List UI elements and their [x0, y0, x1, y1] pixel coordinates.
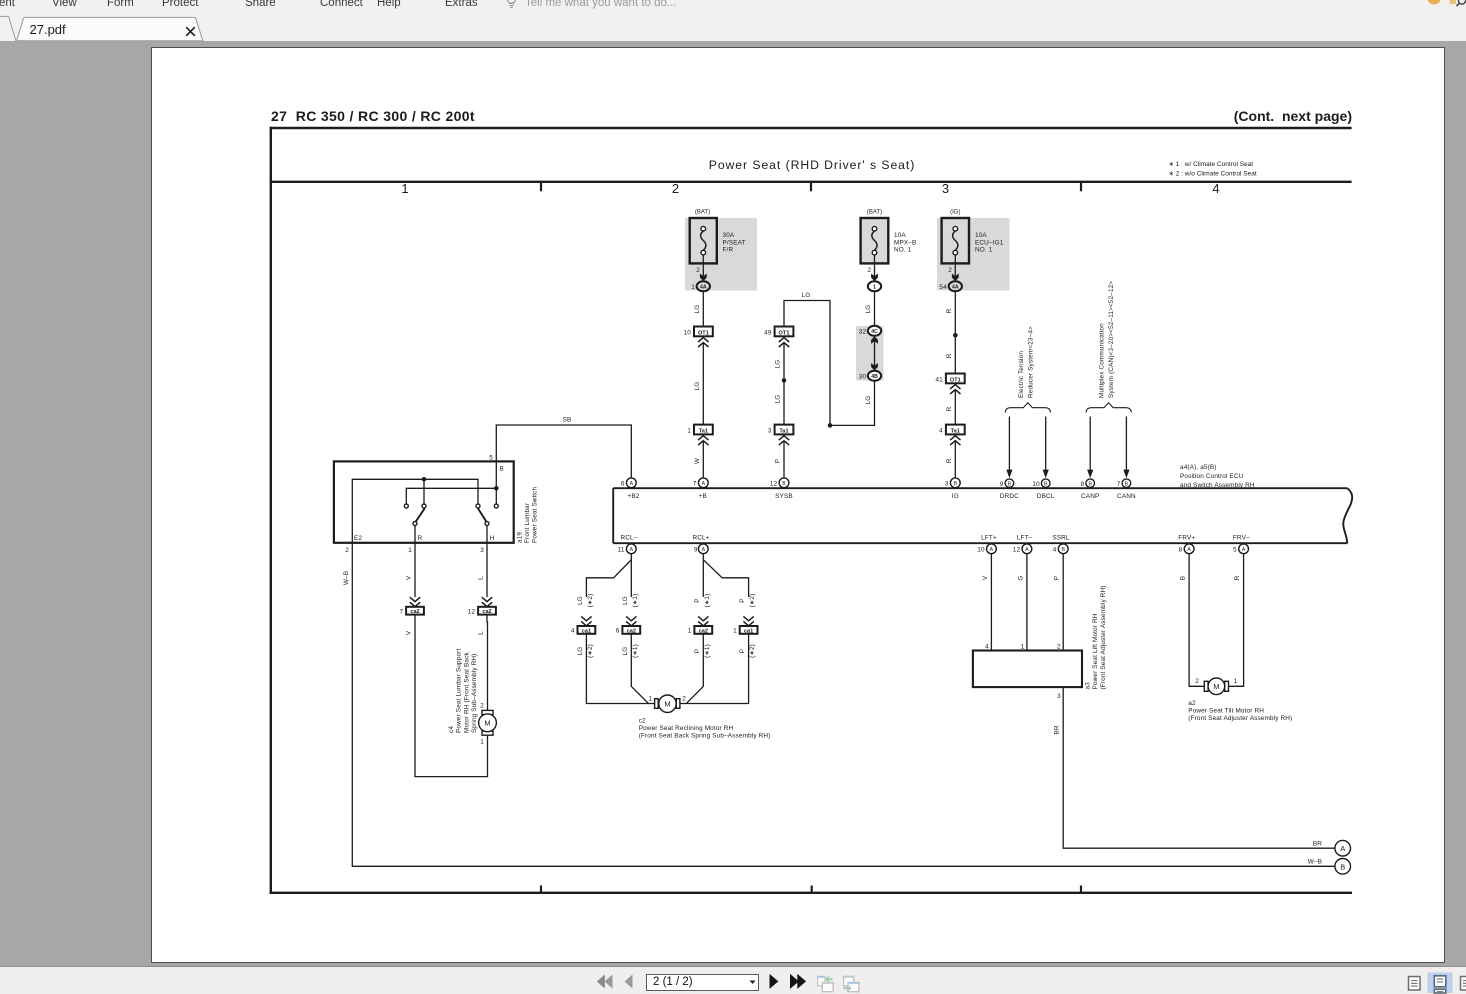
fuse F3 10A ECU-IG1 NO.1 [942, 218, 969, 263]
arrow into 4A [700, 274, 707, 282]
contact circle left-left [404, 504, 408, 508]
svg-text:12: 12 [770, 481, 778, 488]
chevrons below OT1 col2 [779, 338, 789, 347]
svg-text:P: P [1054, 576, 1061, 580]
svg-text:OT1: OT1 [698, 330, 709, 336]
svg-text:1: 1 [1234, 678, 1238, 685]
svg-text:2: 2 [1057, 643, 1061, 650]
svg-text:7: 7 [1117, 481, 1121, 488]
svg-text:+B2: +B2 [628, 493, 640, 500]
svg-text:a3: a3 [1085, 682, 1092, 690]
chevrons into ca2-7 [410, 597, 420, 606]
wire RCL+ branch *2 [703, 560, 748, 597]
svg-text:∗ 1 : w/ Climate Control Seat: ∗ 1 : w/ Climate Control Seat [1169, 161, 1254, 168]
svg-text:B: B [1180, 576, 1187, 580]
svg-text:W: W [694, 457, 701, 464]
svg-text:(Cont. next page): (Cont. next page) [1234, 108, 1352, 124]
terminal circle B pin 9 (DRDC) [1000, 479, 1014, 488]
arrow into ellipse 1 [871, 274, 878, 282]
pivot circle right [485, 522, 489, 526]
svg-text:R: R [418, 535, 423, 542]
terminal circle B pin 4 (SSRL) [1053, 544, 1068, 554]
chevrons into ca2-1 [698, 616, 708, 625]
motor c4 lumbar support [479, 710, 497, 735]
tab close x [186, 27, 195, 36]
svg-text:ca1: ca1 [744, 628, 753, 634]
wire color LG *1 upper [622, 594, 639, 608]
wire LG 4B down and left to junction [830, 381, 875, 426]
arrow into 4A (F3) [952, 274, 959, 282]
svg-text:7: 7 [399, 608, 403, 615]
svg-text:A: A [630, 481, 634, 487]
svg-text:LG: LG [865, 396, 872, 405]
wire LG F2 ellipse1 down to 4C [874, 291, 876, 326]
svg-text:DRDC: DRDC [1000, 493, 1019, 500]
svg-text:Ta1: Ta1 [951, 428, 960, 434]
contact circle right-left [476, 504, 480, 508]
nav next button [770, 974, 779, 989]
ECU box bottom edge [613, 542, 1347, 544]
brace multiplex [1086, 403, 1131, 413]
svg-text:LG: LG [622, 647, 629, 656]
svg-text:Spring Sub–Assembly RH): Spring Sub–Assembly RH) [471, 654, 478, 733]
svg-text:1: 1 [687, 428, 691, 435]
svg-text:H: H [490, 535, 495, 542]
connector ellipse 1 (F2) [868, 281, 881, 291]
svg-text:G: G [1017, 575, 1024, 580]
svg-text:11: 11 [618, 547, 625, 554]
svg-text:B: B [1044, 481, 1048, 487]
svg-text:V: V [405, 630, 412, 635]
terminal circle A pin 5 (FRV-) [1233, 544, 1248, 554]
arrow down into 4B [871, 363, 878, 371]
svg-text:1: 1 [408, 547, 412, 554]
svg-text:1: 1 [691, 284, 695, 291]
svg-text:c2: c2 [639, 717, 646, 724]
wire ca1-4 to motor c2 left [586, 634, 654, 704]
connector ellipse 4C pin 32 [859, 326, 881, 336]
terminal circle B pin 7 (CANN) [1117, 479, 1131, 488]
terminal circle A pin 12 (LFT-) [1013, 544, 1032, 554]
svg-text:ca1: ca1 [582, 628, 591, 634]
svg-text:49: 49 [764, 330, 772, 337]
terminal circle A pin 7 (+B) [693, 478, 708, 488]
switch lever left (R) [416, 508, 425, 522]
nav prev button [625, 975, 633, 989]
wire W-B E2 to ground B [352, 543, 1335, 867]
svg-text:2: 2 [682, 696, 686, 703]
svg-text:P: P [739, 598, 746, 602]
lightbulb icon [507, 0, 515, 8]
svg-text:Power Seat Switch: Power Seat Switch [532, 487, 539, 543]
junction dot on E2 rail [422, 477, 427, 482]
wire R OT1-41 to Ta1-4 [954, 390, 956, 425]
svg-text:4A: 4A [700, 285, 707, 291]
svg-text:A: A [630, 547, 634, 553]
svg-text:Motor RH (Front Seat Back: Motor RH (Front Seat Back [463, 652, 470, 733]
svg-text:4: 4 [571, 628, 575, 635]
connector Ta1 pin 4 [939, 425, 965, 435]
svg-text:1: 1 [480, 739, 484, 746]
switch inner bus upper (E2 rail) [352, 479, 478, 543]
wire color LG *2 upper [577, 594, 594, 608]
svg-text:7: 7 [693, 481, 697, 488]
terminal circle B pin 10 (DBCL) [1032, 479, 1050, 488]
svg-text:A: A [702, 481, 706, 487]
switch lever right (H) [478, 508, 487, 522]
wire B FRV+ to tilt motor [1189, 554, 1204, 687]
nav last button [790, 974, 799, 989]
svg-text:W–B: W–B [343, 571, 350, 585]
svg-text:ca2: ca2 [410, 609, 419, 615]
svg-text:ca2: ca2 [482, 609, 491, 615]
svg-text:F/R: F/R [723, 247, 734, 254]
connector ca2 pin 1 [688, 626, 712, 635]
svg-text:NO. 1: NO. 1 [975, 247, 993, 254]
svg-text:41: 41 [935, 377, 943, 384]
arrow up into 4C [871, 336, 878, 344]
svg-text:1: 1 [688, 628, 692, 635]
svg-text:LG: LG [694, 382, 701, 391]
svg-text:P: P [774, 459, 781, 463]
svg-text:5: 5 [489, 455, 493, 462]
svg-text:RCL+: RCL+ [692, 534, 709, 541]
svg-text:1: 1 [873, 285, 876, 291]
junction dot col2/col3 [828, 423, 833, 428]
svg-text:SYSB: SYSB [775, 493, 793, 500]
svg-text:LG: LG [577, 647, 584, 656]
svg-text:B: B [782, 481, 786, 487]
view mode: continuous icon (selected) [1428, 973, 1453, 994]
svg-text:M: M [664, 700, 670, 709]
connector OT1 pin 41 [935, 374, 964, 384]
terminal circle B pin 12 (SYSB) [770, 478, 789, 488]
splice dot col4 [953, 333, 958, 338]
column ticks bottom [541, 886, 1081, 893]
chevrons below Ta1 col1 [698, 436, 708, 445]
svg-text:3: 3 [1057, 693, 1061, 700]
chevrons into ca2-6 [626, 616, 636, 625]
svg-text:1: 1 [401, 181, 408, 196]
svg-text:A: A [1340, 844, 1345, 853]
wire ca2-6 to motor c2 left diagonal [631, 634, 648, 704]
wire RCL+ branch *1 [702, 554, 704, 597]
svg-text:(∗1): (∗1) [632, 644, 639, 658]
wire R below pivot [414, 526, 416, 543]
wire between 4C and 4B [874, 339, 876, 367]
column header line [270, 181, 1352, 183]
arrow to DBCL [1043, 417, 1049, 479]
next-view icon (disabled) [843, 976, 859, 992]
svg-text:L: L [477, 576, 484, 580]
arrow to DRDC [1006, 417, 1012, 479]
connector OT1 pin 10 [684, 327, 713, 337]
wire ca2-1 to motor c2 right diagonal [687, 634, 704, 704]
fuse F1 30A P/SEAT F/R [690, 218, 717, 263]
wire color LG *2 lower [577, 644, 594, 658]
svg-text:A: A [702, 547, 706, 553]
svg-text:(Front Seat Adjuster Assembly: (Front Seat Adjuster Assembly RH) [1188, 715, 1292, 722]
svg-text:B: B [500, 466, 504, 473]
svg-text:4: 4 [985, 643, 989, 650]
fuse F3 gray background [937, 218, 1010, 291]
svg-text:W–B: W–B [1308, 859, 1322, 866]
svg-text:OT1: OT1 [950, 377, 961, 383]
pivot circle left [413, 522, 417, 526]
chevrons into ca1-4 [581, 616, 591, 625]
arrow to CANP [1087, 417, 1093, 479]
svg-text:IG: IG [952, 493, 959, 500]
svg-text:CANN: CANN [1117, 493, 1136, 500]
wire L switch-3 down [486, 543, 488, 597]
svg-text:Front Lumbar: Front Lumbar [524, 502, 531, 543]
orange doc icon top right [1450, 0, 1457, 4]
svg-text:Power Seat Reclining Motor RH: Power Seat Reclining Motor RH [639, 725, 734, 732]
svg-text:A: A [990, 547, 994, 553]
svg-text:B: B [1008, 481, 1012, 487]
page number dropdown [646, 974, 759, 991]
svg-text:(∗2): (∗2) [749, 644, 756, 658]
svg-text:P: P [739, 649, 746, 653]
svg-text:2: 2 [480, 703, 484, 710]
chevrons below Ta1 col4 [950, 436, 960, 445]
wire fuse F2 to connector 1 [874, 255, 876, 282]
svg-text:LG: LG [622, 596, 629, 605]
lift motor box a3 [973, 651, 1082, 688]
svg-text:P: P [694, 598, 701, 602]
chevrons into ca2-12 [482, 597, 492, 606]
svg-text:LFT+: LFT+ [981, 534, 997, 541]
svg-text:3: 3 [768, 428, 772, 435]
terminal circle A pin 6 (+B2) [621, 478, 636, 488]
wire P Ta1 to SYSB [783, 441, 785, 478]
wire fuse F3 to connector 4A [954, 255, 956, 282]
svg-text:4: 4 [939, 428, 943, 435]
svg-text:FRV+: FRV+ [1178, 534, 1195, 541]
switch wire pin5 into box [495, 455, 497, 486]
connector OT1 pin 49 [764, 327, 793, 337]
wire fuse F1 to connector 4A [702, 255, 704, 282]
svg-text:c4: c4 [448, 726, 455, 733]
splice dot col2 [782, 378, 787, 383]
ECU box left edge [612, 488, 614, 543]
svg-text:B: B [1061, 547, 1065, 553]
svg-text:6: 6 [621, 481, 625, 488]
svg-text:10: 10 [684, 330, 692, 337]
terminal circle A pin 10 (LFT+) [977, 544, 996, 554]
svg-text:(∗2): (∗2) [749, 594, 756, 608]
svg-text:(IG): (IG) [950, 210, 960, 216]
svg-text:(BAT): (BAT) [867, 210, 882, 216]
drop from E2 rail to contact [423, 479, 425, 503]
gray background 4C/4B [856, 326, 884, 381]
svg-text:10A: 10A [975, 232, 987, 239]
svg-text:Power Seat Lift Motor RH: Power Seat Lift Motor RH [1092, 613, 1099, 689]
svg-text:2: 2 [1195, 678, 1199, 685]
wire V ca2 to motor bottom [415, 615, 488, 777]
diagram outer frame bottom line [270, 892, 1352, 894]
svg-text:27 RC 350 / RC 300 / RC 200t: 27 RC 350 / RC 300 / RC 200t [271, 108, 475, 124]
connector ca2 pin 7 [399, 607, 423, 616]
svg-text:4B: 4B [871, 374, 878, 380]
arrow to CANN [1123, 417, 1129, 479]
svg-text:4C: 4C [871, 329, 878, 335]
wire P SSRL to lift box [1062, 554, 1064, 651]
svg-text:10: 10 [1032, 481, 1040, 488]
view mode: single page icon [1409, 977, 1421, 991]
svg-text:10: 10 [977, 547, 985, 554]
brace electric tension [1005, 403, 1050, 413]
wire color P *2 lower [739, 644, 756, 658]
connector ellipse 4A (F1) pin 1 [691, 281, 710, 291]
terminal circle A pin 8 (FRV+) [1179, 544, 1194, 554]
magnifier icon top right [1458, 0, 1465, 4]
svg-text:(Front Seat Adjuster Assembly: (Front Seat Adjuster Assembly RH) [1100, 585, 1107, 689]
svg-text:B: B [1340, 862, 1345, 871]
wire LG top horizontal col2 [784, 301, 830, 426]
svg-text:V: V [982, 575, 989, 580]
svg-text:Ta1: Ta1 [699, 428, 708, 434]
wire R Ta1 to IG [954, 441, 956, 478]
chevrons below OT1 col1 [698, 338, 708, 347]
svg-text:+B: +B [699, 493, 707, 500]
svg-text:M: M [1213, 682, 1219, 691]
svg-text:ca2: ca2 [699, 628, 708, 634]
svg-text:3: 3 [480, 547, 484, 554]
connector Ta1 pin 1 col1 [687, 425, 713, 435]
wire G LFT- to lift box [1026, 554, 1028, 651]
svg-text:4A: 4A [952, 285, 959, 291]
svg-text:Electric Tension: Electric Tension [1018, 351, 1025, 398]
svg-text:Reducer System<23–4>: Reducer System<23–4> [1027, 326, 1034, 398]
svg-text:5: 5 [1233, 547, 1237, 554]
svg-text:Multiplex Communication: Multiplex Communication [1099, 323, 1106, 398]
svg-text:2: 2 [867, 267, 871, 274]
junction dot on B rail [494, 486, 499, 491]
svg-text:Position Control ECU: Position Control ECU [1180, 473, 1244, 480]
svg-text:3: 3 [945, 481, 949, 488]
svg-text:8: 8 [1179, 547, 1183, 554]
motor c2 reclining [655, 695, 680, 712]
wire BR lift box to ground A [1063, 688, 1335, 848]
svg-text:Power Seat Tilt Motor RH: Power Seat Tilt Motor RH [1188, 708, 1264, 715]
svg-text:a19: a19 [517, 532, 524, 543]
ground circle A [1335, 840, 1351, 856]
svg-text:A: A [1187, 547, 1191, 553]
svg-text:R: R [946, 308, 953, 313]
svg-text:SB: SB [563, 417, 572, 424]
wire ca1-1 to motor c2 right [680, 634, 749, 704]
svg-text:OT1: OT1 [779, 330, 790, 336]
svg-text:E2: E2 [354, 535, 362, 542]
svg-text:54: 54 [939, 284, 947, 291]
tab: previous tab edge partial [0, 16, 16, 40]
contact circle right-right [494, 504, 498, 508]
view mode: facing icon (partial at edge) [1461, 977, 1466, 991]
svg-text:2: 2 [345, 547, 349, 554]
svg-text:R: R [946, 458, 953, 463]
svg-text:LG: LG [577, 596, 584, 605]
ECU box right break curve [1343, 488, 1352, 543]
svg-text:(∗2): (∗2) [587, 644, 594, 658]
svg-text:LG: LG [774, 360, 781, 369]
wire SB switch to +B2 [496, 425, 631, 478]
dropdown caret [750, 981, 756, 985]
svg-text:(∗2): (∗2) [587, 594, 594, 608]
wire LG F1 4A to OT1 [702, 291, 704, 326]
wire H below pivot [486, 526, 488, 543]
switch box a19 Front Lumbar Power Seat Switch [334, 461, 514, 542]
chevrons into ca1-1 [743, 616, 753, 625]
connector ca1 pin 1 [733, 626, 757, 635]
svg-text:V: V [405, 575, 412, 580]
svg-text:R: R [946, 406, 953, 411]
diagram outer frame left line [270, 127, 272, 894]
svg-text:a4(A), a5(B): a4(A), a5(B) [1180, 464, 1217, 471]
status bar [0, 966, 1466, 967]
svg-text:9: 9 [1000, 481, 1004, 488]
svg-text:1: 1 [733, 628, 737, 635]
svg-text:12: 12 [468, 608, 476, 615]
wire V LFT+ to lift box [990, 554, 992, 651]
wire V switch-1 down [414, 543, 416, 597]
ECU box top edge [613, 487, 1347, 489]
menu bar [0, 0, 1466, 41]
fuse F1 gray background [685, 218, 757, 291]
wire L ca2 to motor top [486, 615, 489, 711]
svg-text:6: 6 [616, 628, 620, 635]
svg-text:Power Seat (RHD Driver' s Seat: Power Seat (RHD Driver' s Seat) [709, 158, 916, 172]
svg-text:(∗1): (∗1) [704, 644, 711, 658]
column ticks top [541, 182, 1081, 192]
wire RCL- branch *1 [630, 560, 632, 597]
svg-text:M: M [484, 719, 490, 728]
svg-text:P/SEAT: P/SEAT [723, 239, 746, 246]
svg-text:a2: a2 [1188, 700, 1196, 707]
svg-text:BR: BR [1313, 841, 1322, 848]
svg-text:SSRL: SSRL [1052, 534, 1070, 541]
svg-text:LG: LG [694, 305, 701, 314]
orange notification icon top right [1427, 0, 1441, 5]
terminal circle B pin 8 (CANP) [1081, 479, 1095, 488]
svg-text:2: 2 [948, 267, 952, 274]
connector Ta1 pin 3 [768, 425, 794, 435]
svg-text:30A: 30A [723, 232, 735, 239]
svg-text:9: 9 [694, 547, 698, 554]
wire RCL- branch *2 [586, 554, 631, 597]
wire R FRV- to tilt motor [1229, 554, 1244, 687]
tab 27.pdf [17, 17, 203, 40]
ground circle B [1335, 859, 1351, 875]
wire W Ta1 to +B [702, 441, 704, 478]
svg-text:LG: LG [865, 305, 872, 314]
svg-text:(∗1): (∗1) [704, 594, 711, 608]
contact circle left-right [422, 504, 426, 508]
svg-text:(BAT): (BAT) [695, 210, 710, 216]
svg-text:CANP: CANP [1081, 493, 1099, 500]
svg-text:10A: 10A [894, 232, 906, 239]
connector ca2 pin 6 [616, 626, 640, 635]
chevrons below OT1 col4 [950, 385, 960, 394]
svg-text:DBCL: DBCL [1037, 493, 1055, 500]
wire LG OT1 to Ta1 col1 [702, 343, 704, 425]
terminal circle A pin 11 (RCL-) [618, 544, 637, 554]
svg-text:Power Seat Lumbar Support: Power Seat Lumbar Support [456, 649, 463, 733]
svg-text:LFT–: LFT– [1017, 534, 1033, 541]
svg-text:2: 2 [696, 267, 700, 274]
diagram outer frame top line [270, 127, 1352, 129]
svg-text:8: 8 [1081, 481, 1085, 488]
